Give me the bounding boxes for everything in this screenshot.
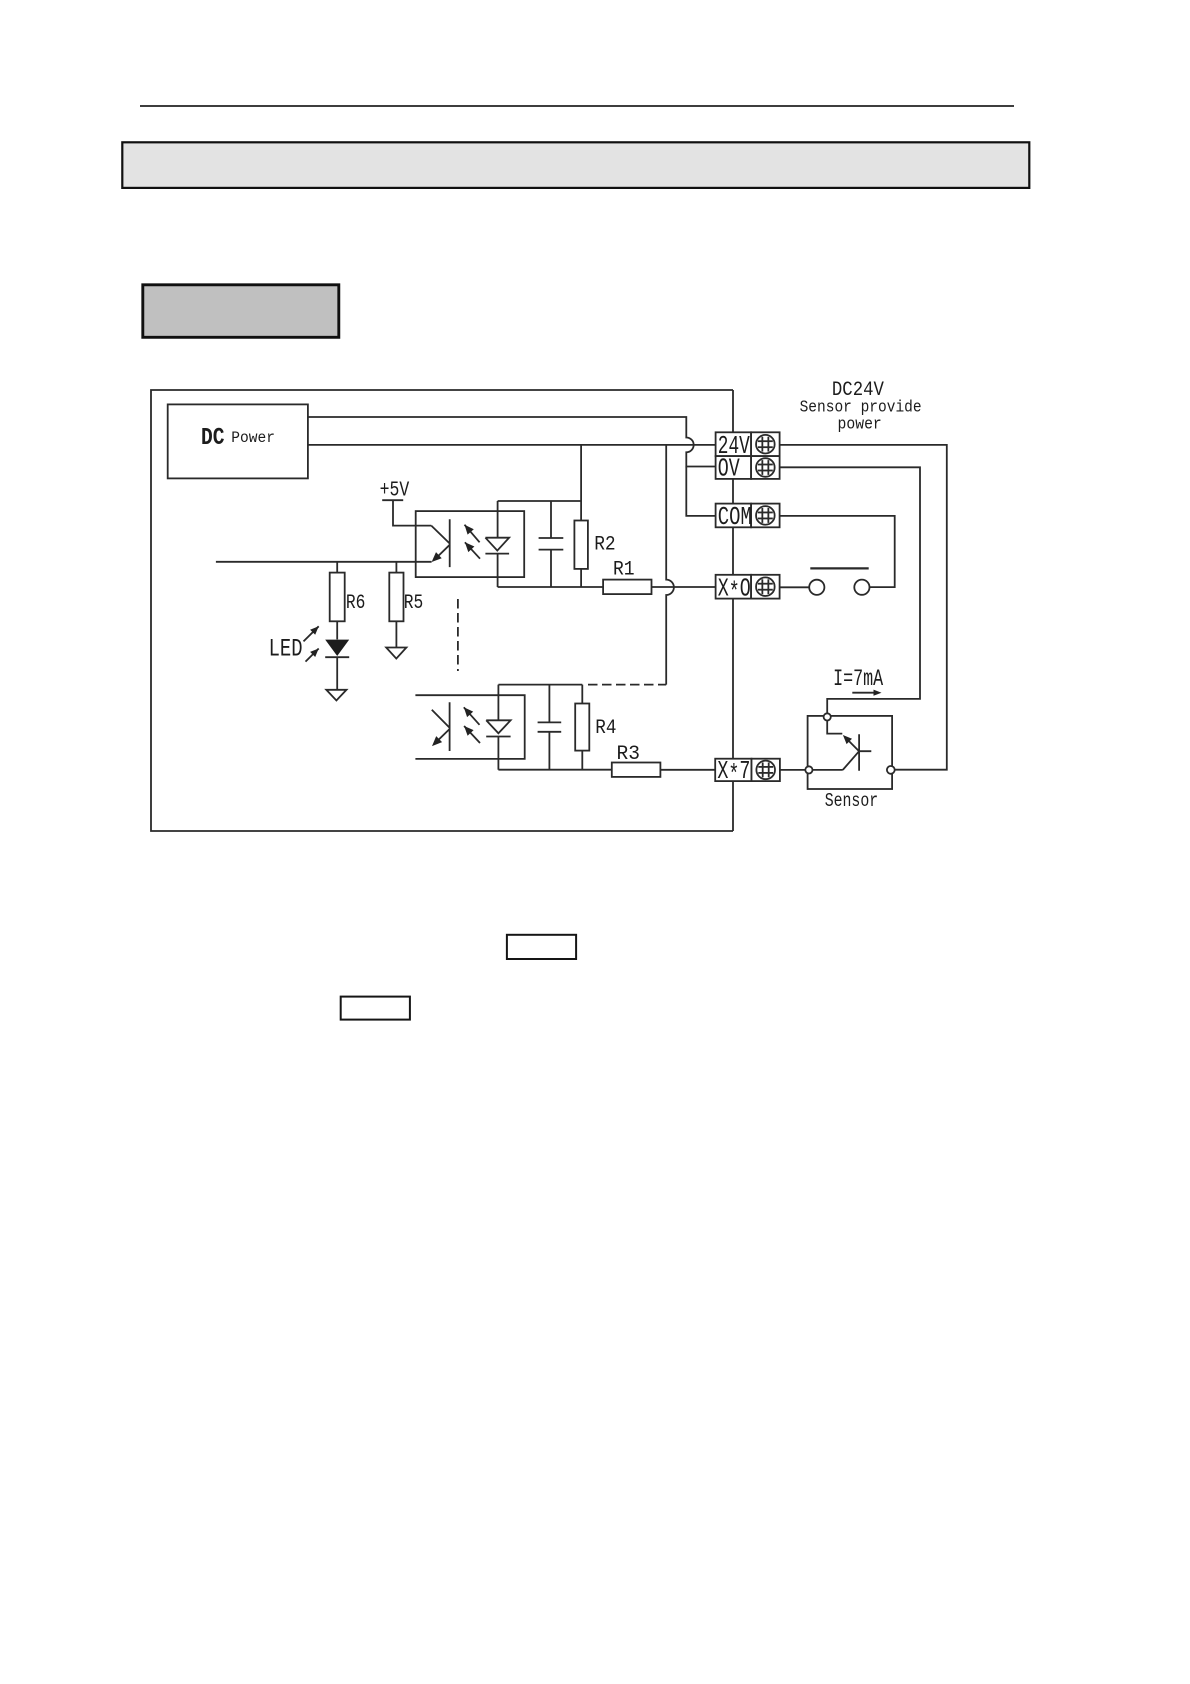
stage-1 bottom rail bbox=[498, 586, 603, 588]
label LED bbox=[269, 635, 303, 664]
svg-text:Sensor: Sensor bbox=[825, 790, 879, 812]
terminal X*7 bbox=[715, 756, 780, 790]
svg-text:R5: R5 bbox=[404, 592, 424, 615]
resistor R3 bbox=[612, 763, 661, 777]
wire X*0 terminal to switch bbox=[780, 586, 810, 588]
wire W1 branch to COM bbox=[686, 467, 715, 516]
PLC enclosure box bbox=[151, 390, 733, 831]
sensor box bbox=[808, 716, 893, 789]
svg-text:X*7: X*7 bbox=[717, 756, 750, 790]
svg-text:R3: R3 bbox=[617, 743, 641, 766]
wire 0V terminal down to sensor top bbox=[780, 467, 920, 713]
svg-text:R2: R2 bbox=[594, 534, 616, 557]
U2 LED D3 bbox=[486, 685, 510, 770]
U1 LED D2 bbox=[485, 501, 509, 587]
svg-text:R4: R4 bbox=[595, 717, 616, 740]
+5V rail bar and wire to Q1 collector bbox=[382, 500, 431, 525]
label I=7mA bbox=[833, 666, 883, 692]
svg-text:power: power bbox=[838, 414, 882, 433]
LED emission arrows bbox=[304, 626, 319, 661]
reference box B bbox=[341, 997, 410, 1020]
resistor R2 bbox=[574, 501, 588, 587]
wire R3 to X*7 terminal bbox=[660, 769, 715, 771]
current direction arrow bbox=[852, 690, 881, 696]
wire V2 from W2 to stage-1 top rail bbox=[580, 445, 582, 501]
ground under LED bbox=[326, 690, 346, 701]
resistor R4 bbox=[575, 685, 589, 770]
capacitor C2 bbox=[538, 685, 562, 770]
dashed continuation rail to lower stage bbox=[588, 684, 666, 686]
wire R1 to X*0 terminal bbox=[652, 586, 716, 588]
capacitor C1 bbox=[539, 501, 564, 587]
wire 24V terminal to sensor right bbox=[780, 445, 947, 770]
resistor R6 bbox=[330, 562, 345, 640]
ground under R5 bbox=[386, 648, 406, 659]
svg-text:+5V: +5V bbox=[380, 480, 410, 503]
label DC Power bbox=[201, 425, 275, 452]
resistor R1 bbox=[603, 580, 651, 595]
svg-text:DC: DC bbox=[201, 425, 225, 452]
svg-text:Power: Power bbox=[231, 429, 275, 447]
svg-text:LED: LED bbox=[269, 635, 303, 664]
svg-text:COM: COM bbox=[718, 502, 752, 532]
label +5V bbox=[380, 480, 410, 503]
label Sensor bbox=[825, 790, 879, 812]
terminal COM bbox=[716, 502, 780, 532]
DC power supply box bbox=[168, 404, 308, 478]
stage-2 top rail bbox=[498, 684, 582, 686]
heading bar (redacted) bbox=[122, 142, 1029, 188]
wire V1 from W2 down with hop over X*0 wire to lower stage rail bbox=[666, 445, 674, 685]
U2 light arrows bbox=[464, 707, 480, 743]
label R5 bbox=[404, 592, 424, 615]
terminal 24V bbox=[716, 431, 780, 461]
reference box A bbox=[507, 935, 576, 959]
resistor R5 bbox=[389, 562, 403, 648]
svg-text:R1: R1 bbox=[613, 558, 635, 581]
input wire to Q1 emitter bbox=[216, 561, 432, 563]
stage-2 bottom rail bbox=[498, 769, 611, 771]
wire W2 DC+ to 24V terminal bbox=[308, 444, 716, 446]
label R3 bbox=[617, 743, 641, 766]
svg-text:X*O: X*O bbox=[718, 573, 751, 607]
sensor terminal node left bbox=[805, 766, 812, 773]
sensor terminal node top bbox=[824, 713, 831, 720]
optocoupler U2 box (open left) bbox=[415, 695, 524, 759]
svg-text:R6: R6 bbox=[346, 592, 366, 615]
svg-text:OV: OV bbox=[718, 454, 740, 484]
U1 light arrows bbox=[465, 525, 481, 559]
sensor terminal node right bbox=[887, 766, 895, 774]
wire W1 DC- down with hop over W2 to 0V bbox=[308, 417, 716, 467]
sensor output transistor bbox=[812, 720, 871, 770]
indicator LED D1 bbox=[325, 640, 349, 690]
svg-text:I=7mA: I=7mA bbox=[833, 666, 883, 692]
stage-1 top rail bbox=[498, 500, 581, 502]
label R6 bbox=[346, 592, 366, 615]
section label box (redacted) bbox=[143, 285, 339, 338]
phototransistor Q2 bbox=[432, 702, 450, 751]
label R1 bbox=[613, 558, 635, 581]
wire COM terminal to switch bbox=[780, 516, 895, 587]
optocoupler U1 box bbox=[416, 511, 525, 577]
label R2 bbox=[594, 534, 616, 557]
label R4 bbox=[595, 717, 616, 740]
PLC enclosure right edge segments bbox=[732, 390, 734, 831]
wire X*7 terminal to sensor left bbox=[780, 769, 805, 771]
phototransistor Q1 bbox=[431, 519, 449, 567]
dashed repetition mark between stages bbox=[457, 599, 459, 671]
terminal X*0 bbox=[716, 573, 780, 607]
top rule line bbox=[140, 105, 1014, 107]
switch S1 (NO contact) bbox=[809, 568, 869, 595]
label DC24V / Sensor provide power bbox=[800, 379, 922, 433]
terminal 0V bbox=[716, 454, 780, 484]
